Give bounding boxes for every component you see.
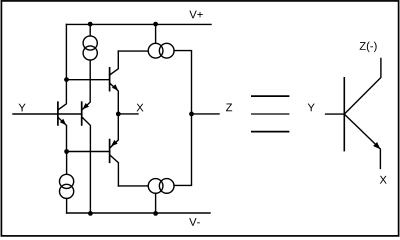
wire node A to Q3 base (66, 79, 109, 81)
transistor Q4 emitter arrow (111, 140, 118, 146)
CCII- symbol (326, 59, 381, 169)
node dot V+ I1 (88, 22, 93, 27)
wire Q1 collector to V+ (58, 24, 67, 110)
wire V+ rail (66, 23, 211, 25)
node dot V+ CM1 (153, 22, 158, 27)
equivalence sign (251, 96, 289, 132)
label Z(-) (360, 42, 366, 50)
label Y (19, 104, 26, 112)
wire X lead (344, 114, 380, 168)
symbol X arrow (373, 142, 380, 149)
transistor Q1 emitter arrow (60, 119, 66, 125)
node dot Z (189, 112, 194, 117)
current source I1 (89, 24, 91, 36)
wire node B to Q4 base (67, 151, 110, 153)
label X (137, 104, 144, 112)
wire CM2 output to Z (174, 114, 191, 185)
transistor Q2 bar (81, 102, 83, 125)
current source I2 (66, 152, 68, 175)
node dot V- CM2 (153, 211, 158, 216)
wire CM1 input from Q3 (118, 50, 148, 52)
node dot V- Q2 (88, 211, 93, 216)
wire V- rail (67, 212, 210, 214)
current mirror CM1 top (155, 24, 157, 43)
wire X output (118, 113, 138, 115)
current mirror CM2 bottom (155, 193, 157, 213)
transistor Q2 emitter arrow (83, 103, 90, 109)
transistor Q4 collector (110, 155, 119, 186)
wire X to Q4 emitter (111, 114, 119, 147)
wire Z output (192, 113, 220, 115)
label V+ (189, 11, 196, 19)
transistor Q3 collector (110, 51, 119, 75)
label Y symbol (308, 104, 315, 112)
symbol bar (343, 78, 345, 151)
wire Y lead (326, 113, 345, 115)
label X symbol (380, 176, 387, 184)
transistor Q2 collector (82, 117, 91, 213)
wire Y input to Q1 Q2 bases (13, 113, 82, 115)
wire I1 to Q2 emitter (83, 60, 91, 109)
transistor Q1 bar (57, 102, 59, 125)
node dot A (64, 77, 69, 82)
wire Z lead (344, 59, 381, 115)
wire CM2 input from Q4 (118, 185, 148, 187)
label V- (189, 218, 196, 226)
transistor Q3 bar (109, 68, 111, 91)
transistor Q3 emitter arrow (112, 84, 118, 90)
node dot B (64, 149, 69, 154)
node dot X (116, 112, 121, 117)
label Z (226, 103, 232, 111)
transistor Q4 bar (109, 140, 111, 163)
transistor Q3 emitter (110, 83, 119, 114)
wire CM1 output to Z (174, 51, 191, 114)
transistor Q1 emitter (58, 117, 67, 151)
